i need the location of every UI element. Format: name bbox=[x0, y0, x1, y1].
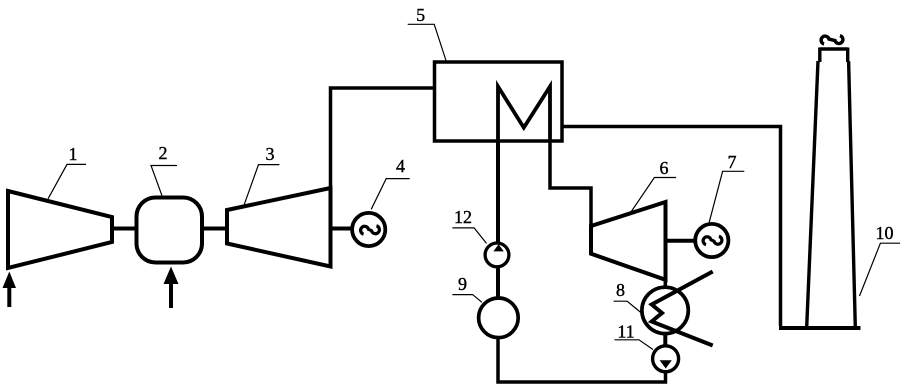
svg-text:9: 9 bbox=[458, 274, 467, 294]
shaft combustor-turbine bbox=[202, 227, 227, 231]
generator 7 bbox=[695, 224, 728, 257]
svg-text:10: 10 bbox=[876, 223, 894, 243]
label 9 bbox=[452, 274, 482, 302]
HRSG coil M bbox=[498, 87, 550, 142]
label 4 bbox=[371, 156, 410, 209]
smoke squiggle bbox=[821, 36, 843, 44]
condenser 8 bbox=[642, 287, 688, 333]
label 12 bbox=[452, 207, 486, 243]
svg-text:4: 4 bbox=[396, 156, 405, 176]
svg-text:7: 7 bbox=[728, 152, 737, 172]
shaft turbine-generator4 bbox=[331, 227, 353, 231]
flue duct HRSG to stack bbox=[562, 127, 781, 327]
exhaust duct turbine3 to HRSG bbox=[331, 88, 435, 190]
pipe turbine6 to condenser bbox=[664, 280, 668, 289]
pump 12 bbox=[485, 243, 509, 267]
condenser cooling water line bbox=[652, 272, 713, 346]
label 1 bbox=[48, 144, 86, 199]
compressor 1 bbox=[8, 191, 112, 268]
combustor fuel arrow bbox=[164, 267, 179, 309]
pipe condenser to pump 11 bbox=[663, 333, 667, 348]
feedwater pipe pump12 to HRSG bbox=[496, 141, 500, 244]
label 3 bbox=[243, 144, 279, 207]
svg-text:5: 5 bbox=[416, 5, 425, 25]
label 10 bbox=[860, 223, 900, 296]
shaft turbine6-generator7 bbox=[666, 239, 697, 243]
generator 4 bbox=[352, 213, 385, 246]
HRSG box 5 bbox=[435, 62, 563, 141]
steam pipe HRSG to steam turbine bbox=[550, 141, 591, 226]
svg-text:12: 12 bbox=[454, 207, 472, 227]
chimney 10 bbox=[807, 48, 856, 328]
steam turbine 6 bbox=[591, 202, 666, 280]
tank 9 bbox=[479, 298, 519, 338]
label 5 bbox=[408, 5, 446, 61]
svg-text:11: 11 bbox=[617, 322, 634, 342]
label 7 bbox=[709, 152, 744, 222]
label 6 bbox=[630, 158, 677, 214]
svg-text:6: 6 bbox=[660, 158, 669, 178]
label 2 bbox=[151, 143, 177, 195]
pipe tank9 to pump12 bbox=[496, 268, 500, 300]
condensate bottom pipe bbox=[498, 338, 666, 382]
stack base line bbox=[779, 326, 861, 330]
combustion chamber 2 bbox=[137, 198, 203, 263]
svg-text:1: 1 bbox=[69, 144, 78, 164]
svg-text:8: 8 bbox=[616, 280, 625, 300]
label 11 bbox=[615, 322, 654, 350]
pump 11 bbox=[653, 346, 679, 372]
compressor inlet arrow bbox=[3, 272, 17, 308]
shaft compressor-combustor bbox=[112, 227, 137, 231]
svg-text:2: 2 bbox=[159, 143, 168, 163]
label 8 bbox=[614, 280, 643, 314]
svg-text:3: 3 bbox=[266, 144, 275, 164]
gas turbine 3 bbox=[227, 188, 331, 267]
